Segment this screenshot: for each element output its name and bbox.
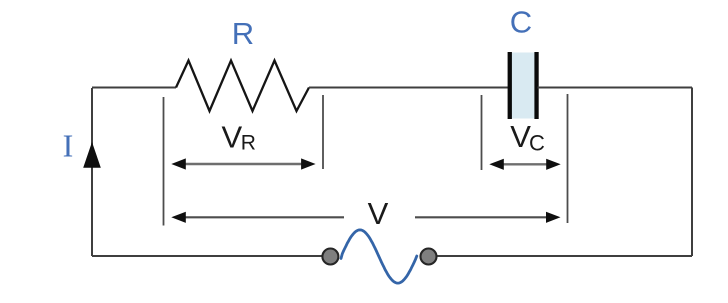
current I arrowhead on left wire <box>83 142 101 168</box>
svg-text:R: R <box>241 131 256 154</box>
VR dimension arrow shaft <box>183 163 304 165</box>
AC source right terminal dot <box>421 249 437 265</box>
V dimension arrow shaft right part <box>415 216 549 218</box>
VC arrowhead right <box>546 159 561 170</box>
AC source sine wave <box>341 230 417 283</box>
tick mark right (VC / V right boundary) <box>567 94 569 223</box>
svg-text:I: I <box>63 128 74 164</box>
tick mark VR right boundary <box>322 95 324 169</box>
VR arrowhead right <box>301 158 316 169</box>
capacitor C dielectric fill <box>512 53 535 119</box>
wire top left segment (92,87.5)-(176,87.5) <box>92 87 176 89</box>
tick mark VC left boundary <box>481 95 483 170</box>
V arrowhead left <box>171 212 186 223</box>
tick mark left (VR / V left boundary) <box>163 97 165 226</box>
wire top right segment (538,87.5)-(692,87.5) <box>538 87 693 89</box>
wire bottom left segment (322,256)-(92,256) <box>92 255 323 257</box>
V arrowhead right <box>546 212 561 223</box>
capacitor C left plate <box>508 52 512 119</box>
capacitor C right plate <box>534 52 538 119</box>
wire left vertical (92,88)-(92,256) <box>91 88 93 256</box>
wire right vertical (692,88)-(692,256) <box>691 88 693 257</box>
wire top middle segment (309,87.5)-(509,87.5) <box>309 87 509 89</box>
svg-text:R: R <box>232 16 254 51</box>
AC source left terminal dot <box>322 249 338 265</box>
svg-text:V: V <box>222 119 243 154</box>
resistor R zigzag <box>176 61 309 112</box>
VC dimension arrow shaft <box>501 163 549 165</box>
wire bottom right segment (692,256)-(437,256) <box>436 255 692 257</box>
svg-text:V: V <box>368 196 389 231</box>
VC arrowhead left <box>489 159 504 170</box>
svg-text:C: C <box>510 5 532 40</box>
svg-text:C: C <box>529 130 545 155</box>
VR arrowhead left <box>171 158 186 169</box>
V dimension arrow shaft left part <box>183 216 344 218</box>
